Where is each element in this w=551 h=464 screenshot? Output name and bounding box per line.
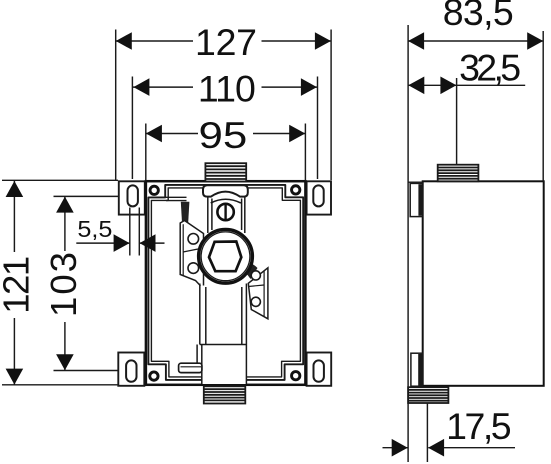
arrow 110 right — [301, 78, 317, 96]
dim 17,5 line — [383, 447, 408, 449]
valve body upper section — [208, 197, 245, 233]
dim 83,5 line — [408, 40, 543, 42]
svg-text:32,5: 32,5 — [459, 46, 521, 88]
arrow 103 top — [56, 197, 74, 213]
dim 95 line — [146, 133, 198, 135]
left bracket notch line — [183, 249, 198, 252]
arrow 5,5 left — [114, 234, 130, 252]
arrow 121 bottom — [6, 369, 24, 385]
arrow 103 bottom — [56, 354, 74, 370]
right bracket dark wedge — [241, 260, 258, 279]
dim 95 extension lines — [145, 124, 147, 182]
arrow 110 left — [133, 78, 149, 96]
side tab bottom dark edge — [418, 354, 422, 386]
mounting tab bottom-left — [118, 353, 144, 386]
dim 103 line — [64, 196, 66, 251]
slot bottom-right tab — [314, 360, 324, 381]
box opening inner lip — [151, 188, 300, 377]
arrow 95 right — [289, 125, 305, 143]
dim 83,5 right extension line — [542, 31, 544, 182]
valve cap inner circle — [201, 232, 250, 281]
arrow 32,5 right — [440, 77, 456, 95]
clamp bar top edge — [181, 366, 202, 368]
right bracket hole upper — [251, 271, 260, 280]
outlet pipe thread (bottom, side view) — [408, 387, 448, 403]
left bracket plate — [180, 221, 203, 290]
arrow 121 top — [6, 181, 24, 197]
slot top-right tab — [313, 185, 323, 206]
left bracket fold line — [182, 224, 184, 275]
arrow 17,5 left — [392, 439, 408, 457]
dim 121 extension lines — [2, 179, 118, 181]
svg-text:103: 103 — [43, 252, 84, 317]
adjustment screw slot — [224, 205, 226, 220]
dim 32,5 line — [408, 84, 525, 86]
flush pipe clamp bar — [179, 363, 202, 372]
mounting tab bottom-right — [307, 353, 332, 386]
dim 17,5 right extension line — [426, 403, 428, 462]
dim 110 extension lines — [131, 77, 133, 180]
collar nut below top pipe — [203, 185, 248, 196]
arrow 17,5 right — [428, 439, 444, 457]
dim 5,5 line — [76, 242, 129, 244]
mounting tab (side view, top) — [410, 183, 423, 216]
shelf lines top-left interior — [166, 196, 187, 198]
svg-text:5,5: 5,5 — [77, 216, 112, 242]
dim 103 extension lines — [54, 195, 119, 197]
svg-text:110: 110 — [198, 68, 256, 110]
box opening (stepped) outer edge — [148, 185, 303, 380]
side tab top dark edge — [418, 184, 422, 216]
dim 5,5 extension lines — [129, 208, 131, 256]
arrow 32,5 left — [408, 77, 424, 95]
mounting tab top-left — [119, 181, 145, 214]
adjustment screw with slot — [217, 204, 233, 220]
svg-text:17,5: 17,5 — [446, 405, 512, 447]
dimension texts — [195, 0, 521, 447]
side view body — [423, 181, 544, 385]
arrow 83,5 right — [527, 32, 543, 50]
valve cap outer ring — [199, 229, 253, 283]
right bracket fold line — [263, 271, 265, 317]
arrow 127 left — [116, 32, 132, 50]
valve body lower section — [197, 284, 246, 385]
corner screw bottom-left — [150, 372, 158, 380]
right bracket plate — [248, 268, 268, 319]
svg-text:127: 127 — [195, 21, 257, 63]
dim 110 line — [132, 86, 193, 88]
svg-text:83,5: 83,5 — [443, 0, 514, 33]
inlet pipe thread (top, side view) — [438, 165, 479, 182]
box outer rectangle — [146, 181, 306, 385]
left bracket hole lower — [188, 263, 199, 274]
arrow 5,5 right — [140, 234, 156, 252]
outlet pipe thread (bottom, front view) — [204, 386, 246, 403]
svg-text:121: 121 — [0, 256, 36, 314]
top closing line to wall — [408, 181, 423, 183]
dim 121 line — [13, 181, 15, 252]
left bracket dark rail — [181, 202, 190, 223]
left bracket hole upper — [188, 234, 199, 245]
slot top-left tab — [128, 185, 138, 206]
mounting tab top-right — [307, 181, 331, 214]
corner screw bottom-right — [292, 372, 300, 380]
right bracket notch line — [248, 285, 264, 287]
dim 127 line — [116, 40, 193, 42]
wall reference line (side view, ext of 83,5 / 32,5 / 17,5) — [407, 25, 409, 462]
valve body lower section fill — [200, 286, 247, 385]
svg-text:95: 95 — [199, 114, 248, 156]
corner screw top-right — [292, 186, 300, 194]
inlet pipe thread (top, front view) — [205, 163, 246, 181]
dim 127 extension lines — [115, 30, 117, 181]
slot bottom-left tab — [126, 360, 136, 381]
right bracket hole lower — [251, 297, 260, 306]
valve cap hexagon — [209, 242, 241, 272]
arrow 127 right — [315, 32, 331, 50]
arrow 83,5 left — [408, 32, 424, 50]
corner screw top-left — [150, 186, 158, 194]
mounting tab (side view, bottom) — [411, 353, 423, 386]
dim 32,5 right extension / pipe centerline — [456, 78, 458, 165]
arrow 95 left — [146, 125, 162, 143]
